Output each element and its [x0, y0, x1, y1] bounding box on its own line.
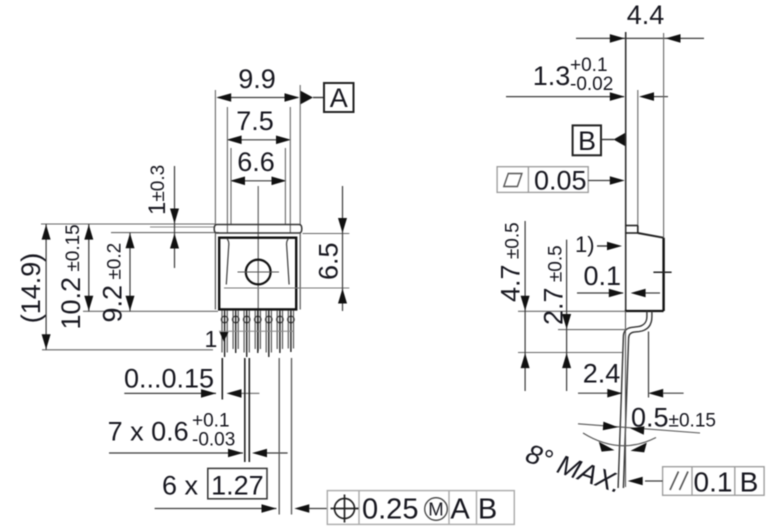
datum A box	[324, 83, 354, 112]
lead 7	[288, 311, 295, 352]
dim 2.4 arrow right-pointing	[607, 389, 622, 398]
lead3 right edge ext	[248, 358, 250, 462]
dim 6x1.27 arrow right-pointing	[262, 504, 277, 513]
dim (14.9) arrows	[42, 225, 51, 350]
dim 6.5 arrows	[338, 218, 347, 304]
svg-text:2.4: 2.4	[583, 359, 621, 389]
dim 1.3 line left	[506, 96, 624, 98]
dim 1.27 box	[208, 468, 267, 498]
dim 1.3 arrow left-pointing	[639, 92, 654, 101]
svg-text:4.4: 4.4	[627, 0, 665, 30]
svg-text:0...0.15: 0...0.15	[124, 364, 214, 394]
lead 2	[232, 311, 239, 353]
svg-text:+0.1: +0.1	[192, 411, 230, 432]
draft line right	[287, 239, 290, 285]
datum A leader	[313, 97, 324, 99]
lead 5	[266, 311, 273, 357]
body back face	[662, 238, 664, 311]
svg-text:A: A	[450, 494, 470, 526]
angle arc arrow left	[599, 442, 615, 452]
ext line 7.5 right	[289, 107, 291, 233]
draft line left	[226, 239, 229, 285]
flatness symbol	[504, 174, 522, 187]
leads group	[221, 311, 294, 357]
flatness leader arrow	[610, 176, 625, 185]
dim 9.2 line	[129, 233, 131, 312]
ext line 6.5 top	[303, 233, 350, 235]
svg-text:0.1: 0.1	[694, 467, 733, 498]
internal tab bottom line	[224, 287, 349, 289]
svg-text:-0.02: -0.02	[570, 74, 613, 95]
lead6 center ext	[278, 358, 280, 515]
dim 0.1 line left	[577, 292, 623, 294]
lead 6	[277, 311, 284, 353]
svg-text:1: 1	[205, 326, 218, 352]
flatness frame	[497, 167, 588, 193]
dim 0...0.15 line right	[242, 392, 260, 394]
dim 7x0.6 arrow right-pointing	[228, 449, 243, 458]
svg-text:B: B	[578, 126, 596, 156]
dim 2.4 line right	[663, 392, 683, 394]
dim 10.2 line	[88, 224, 90, 311]
datum B leader	[601, 139, 614, 141]
hole crosshair	[238, 271, 280, 273]
dim 6.6 arrows	[230, 177, 287, 186]
dim 7.5 line	[229, 139, 290, 141]
flatness leader	[588, 180, 611, 182]
lead vertical ref line	[625, 311, 627, 487]
note 1) arrow	[607, 242, 622, 251]
lead bend inner	[618, 317, 647, 489]
position frame	[327, 491, 514, 525]
tab left edge below strip	[214, 233, 216, 310]
pin1 arrow	[220, 332, 229, 342]
lead3 left edge ext	[244, 358, 246, 462]
angle arc 8deg	[583, 433, 656, 446]
ext line 9.9 left	[214, 90, 216, 224]
ext line bend bottom	[518, 352, 622, 354]
datum B triangle	[614, 133, 626, 146]
ext line lead tips (left)	[42, 349, 213, 351]
dim 2.7 line	[566, 240, 568, 391]
svg-text:1): 1)	[575, 232, 595, 257]
dim 4.4 arrow right-pointing	[610, 34, 625, 43]
dim 7x0.6 line left	[109, 452, 243, 454]
dim 6.5 line	[342, 186, 344, 311]
dim 0.5 arrow right-pointing	[603, 422, 618, 431]
ext line tab top (left)	[41, 223, 215, 225]
dim 0.1 line right	[646, 292, 660, 294]
tab front face line	[625, 32, 627, 311]
svg-text:A: A	[330, 83, 348, 113]
dim 7.5 arrows	[227, 136, 291, 145]
dim 9.2 arrows	[126, 233, 135, 311]
body bottom edge	[625, 310, 664, 312]
dim 9.9 arrows	[216, 93, 299, 102]
center axis line	[257, 186, 259, 351]
dim 2.7 arrows	[562, 314, 571, 368]
svg-text:1±0.3: 1±0.3	[144, 165, 171, 215]
angle arc arrow right	[631, 443, 647, 453]
svg-text:B: B	[478, 494, 497, 526]
lead bend outer	[623, 317, 652, 489]
dim 4.7 arrows	[521, 296, 530, 368]
dim 0.5 slanted line	[578, 424, 700, 433]
dim 0.1 arrow left-pointing	[631, 289, 646, 298]
parallelism frame	[663, 467, 765, 496]
lead stub right edge	[651, 311, 653, 317]
dim 1±0.3 line	[174, 166, 176, 268]
lead 3	[243, 311, 250, 357]
dim 4.4 arrow left-pointing	[666, 34, 681, 43]
svg-text:-0.03: -0.03	[192, 430, 235, 451]
tab step line	[625, 232, 639, 234]
body top slant	[638, 233, 664, 238]
note 1) leader	[597, 245, 607, 247]
svg-text:7.5: 7.5	[236, 106, 274, 136]
ext line body bottom (left)	[83, 310, 218, 312]
ext line body bottom left	[518, 310, 625, 312]
lead stub left edge	[646, 311, 648, 317]
tab back upper edge	[637, 226, 639, 234]
ext line 9.9 right	[299, 85, 301, 224]
svg-text:6.6: 6.6	[237, 147, 275, 177]
dim 6x1.27 arrow left-pointing	[294, 504, 309, 513]
dim 1.3 arrow right-pointing	[610, 92, 625, 101]
dim (14.9) line	[45, 224, 47, 350]
dim 0...0.15 arrow left-pointing	[227, 389, 242, 398]
body outline	[219, 238, 296, 310]
svg-text:0.05: 0.05	[534, 166, 587, 196]
svg-text:M: M	[428, 499, 443, 520]
dim 7x0.6 line right	[267, 452, 288, 454]
ext line tab lip (left)	[111, 232, 219, 234]
svg-text:B: B	[740, 467, 759, 498]
dim 2.4 line left	[578, 392, 622, 394]
tab strip	[214, 225, 302, 234]
ext line short upper	[150, 226, 214, 228]
svg-text:9.9: 9.9	[238, 64, 276, 94]
dim 9.9 line	[218, 97, 298, 99]
datum A triangle	[301, 91, 313, 104]
hole circle	[246, 260, 271, 285]
dim 4.4 line left	[576, 37, 704, 39]
dim 0.1 arrow right-pointing	[609, 289, 624, 298]
ext line tab back upper	[637, 90, 639, 226]
ext line 6.6 right	[284, 148, 286, 225]
svg-text:(14.9): (14.9)	[16, 253, 46, 324]
dim 4.7 line	[524, 221, 526, 391]
dim 6x1.27 line right	[309, 508, 327, 510]
lead 4	[254, 311, 261, 353]
dim 0...0.15 arrow right-pointing	[201, 389, 216, 398]
dim 6x1.27 line left	[155, 508, 277, 510]
ext line lead stub center	[648, 332, 650, 398]
svg-text:7 x 0.6: 7 x 0.6	[108, 417, 189, 447]
dim 1±0.3 arrows	[170, 209, 179, 249]
position symbol	[331, 495, 359, 523]
body back ext line	[663, 33, 665, 238]
parallelism symbol	[670, 472, 688, 491]
svg-text:1.27: 1.27	[211, 471, 264, 501]
ext line 6.6 left	[230, 148, 232, 225]
svg-text:6.5: 6.5	[314, 242, 344, 280]
dim 0...0.15 line left	[124, 392, 216, 394]
svg-text:0.25: 0.25	[362, 494, 418, 526]
dim 6.6 line	[232, 180, 285, 182]
tab right edge below strip	[299, 233, 301, 310]
lead7 center ext	[291, 358, 293, 515]
dim 1.3 line right	[654, 96, 668, 98]
tab top edge	[625, 225, 638, 227]
ext line bend front	[558, 329, 626, 331]
parallelism leader arrow	[628, 477, 643, 486]
dim 10.2 arrows	[84, 225, 93, 311]
lead 1	[221, 311, 228, 357]
body center mark	[653, 271, 671, 273]
dim 2.4 arrow left-pointing	[648, 389, 663, 398]
M circle modifier	[425, 498, 448, 521]
svg-text:6 x: 6 x	[162, 471, 199, 501]
svg-text:+0.1: +0.1	[570, 55, 608, 76]
svg-text:0.1: 0.1	[584, 261, 622, 291]
lead shoulder line	[219, 330, 294, 332]
dim 0.5 arrow left-pointing	[630, 426, 644, 435]
svg-text:1.3: 1.3	[533, 61, 571, 91]
parallelism leader	[645, 480, 663, 482]
dim 7x0.6 arrow left-pointing	[252, 449, 267, 458]
lead1 edge ext line	[221, 358, 223, 400]
ext line 7.5 left	[226, 107, 228, 233]
datum B box	[573, 125, 601, 155]
